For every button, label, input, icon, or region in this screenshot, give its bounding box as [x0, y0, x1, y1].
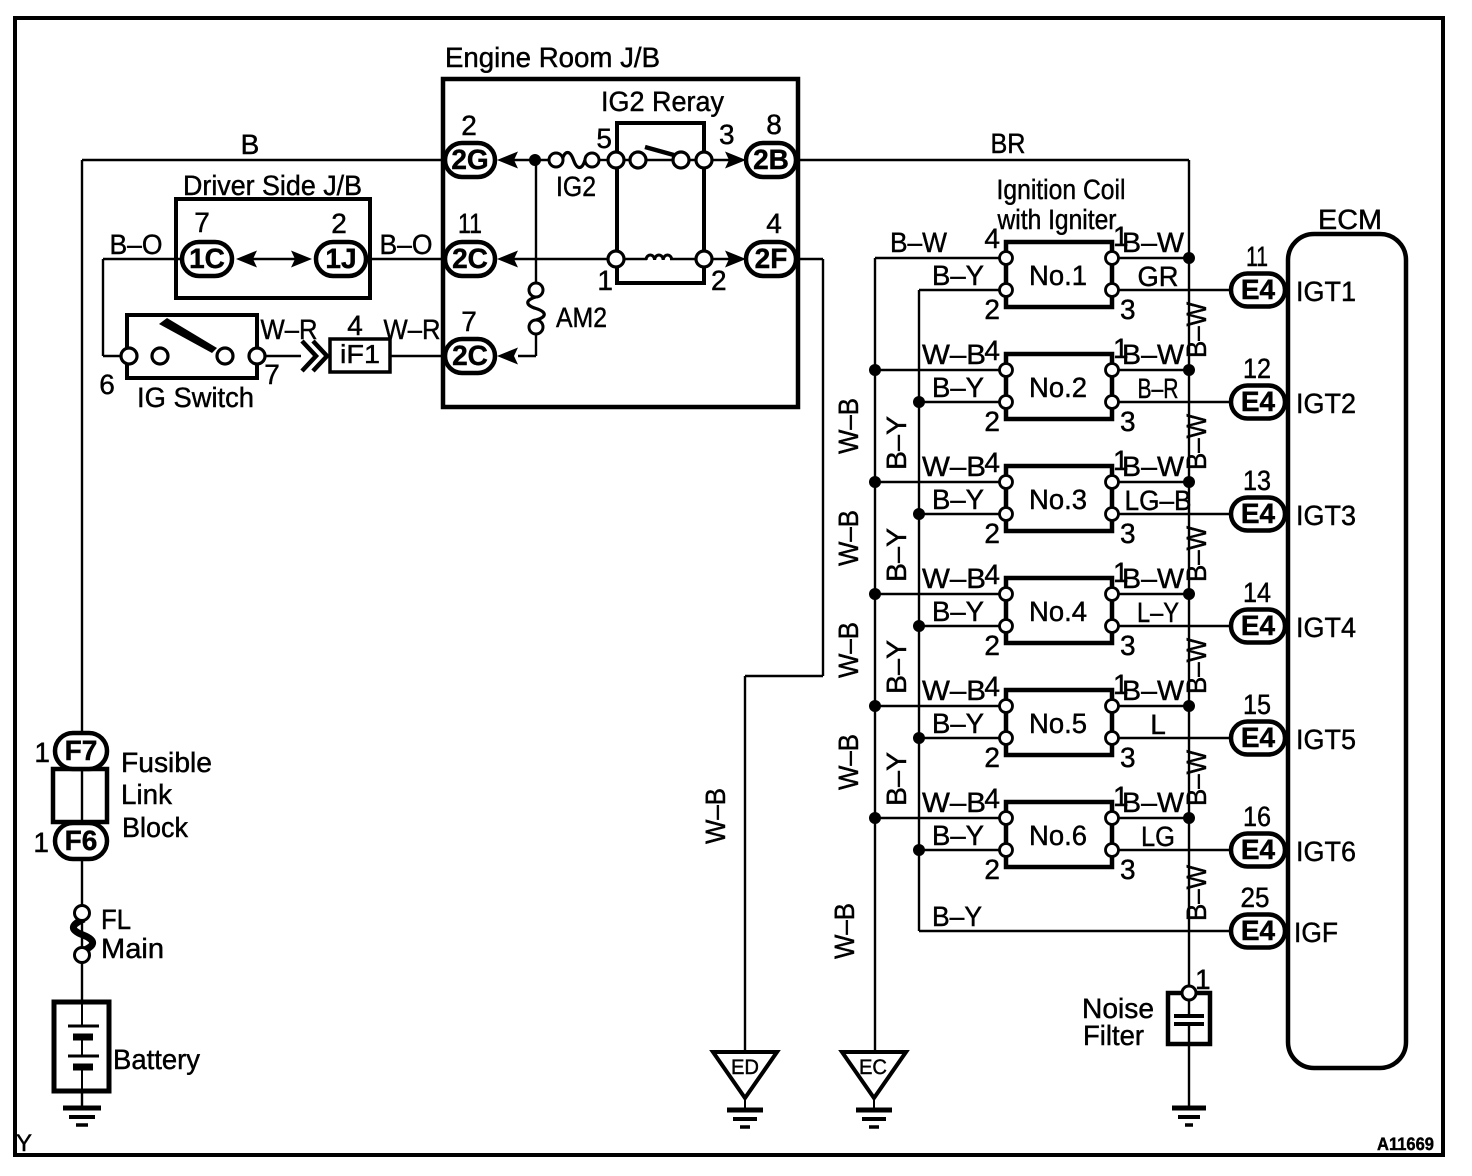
svg-text:B: B [241, 129, 260, 160]
svg-text:IG Switch: IG Switch [137, 382, 254, 413]
svg-text:2C: 2C [452, 243, 488, 274]
svg-text:W–B: W–B [829, 903, 860, 959]
svg-text:2C: 2C [452, 340, 488, 371]
svg-text:2: 2 [984, 854, 1000, 885]
svg-text:5: 5 [596, 123, 612, 154]
svg-text:W–R: W–R [384, 314, 441, 345]
svg-text:W–B: W–B [833, 398, 864, 454]
svg-text:B–Y: B–Y [932, 708, 984, 739]
svg-text:3: 3 [1120, 742, 1136, 773]
svg-text:Block: Block [122, 812, 189, 843]
svg-text:2: 2 [711, 265, 727, 296]
svg-text:F6: F6 [65, 825, 98, 856]
svg-text:4: 4 [984, 559, 1000, 590]
svg-text:B–W: B–W [1181, 749, 1212, 806]
svg-text:2B: 2B [753, 144, 789, 175]
svg-text:Main: Main [101, 933, 164, 964]
svg-text:B–O: B–O [380, 229, 433, 260]
svg-text:1J: 1J [325, 243, 356, 274]
svg-text:16: 16 [1243, 801, 1271, 832]
svg-text:Link: Link [121, 779, 173, 810]
svg-text:W–B: W–B [922, 787, 986, 818]
svg-text:B–Y: B–Y [932, 260, 984, 291]
svg-text:1: 1 [1195, 964, 1211, 995]
svg-text:2G: 2G [451, 144, 488, 175]
svg-text:IGT2: IGT2 [1296, 388, 1356, 419]
svg-text:14: 14 [1243, 577, 1271, 608]
svg-text:IG2: IG2 [556, 171, 596, 202]
svg-text:B–R: B–R [1138, 373, 1179, 404]
svg-text:E4: E4 [1241, 834, 1276, 865]
svg-text:IGT5: IGT5 [1296, 724, 1356, 755]
svg-text:B–W: B–W [1181, 413, 1212, 470]
svg-text:No.4: No.4 [1029, 596, 1087, 627]
svg-text:B–W: B–W [890, 227, 948, 258]
svg-text:4: 4 [766, 208, 782, 239]
svg-text:B–Y: B–Y [932, 372, 984, 403]
svg-text:4: 4 [984, 447, 1000, 478]
svg-text:E4: E4 [1241, 610, 1276, 641]
svg-text:W–B: W–B [833, 734, 864, 790]
svg-text:7: 7 [461, 306, 477, 337]
svg-text:B–Y: B–Y [881, 416, 912, 470]
svg-text:W–B: W–B [922, 563, 986, 594]
svg-text:E4: E4 [1241, 386, 1276, 417]
svg-text:1C: 1C [189, 243, 225, 274]
svg-text:No.1: No.1 [1029, 260, 1087, 291]
svg-text:B–Y: B–Y [932, 820, 984, 851]
svg-text:B–W: B–W [1181, 301, 1212, 358]
svg-text:B–W: B–W [1181, 525, 1212, 582]
svg-text:13: 13 [1243, 465, 1271, 496]
svg-text:BR: BR [991, 128, 1026, 159]
svg-text:W–B: W–B [922, 451, 986, 482]
svg-text:1: 1 [33, 827, 49, 858]
svg-text:2: 2 [984, 518, 1000, 549]
svg-text:FL: FL [101, 904, 131, 935]
svg-text:B–W: B–W [1122, 675, 1185, 706]
svg-text:E4: E4 [1241, 915, 1276, 946]
svg-text:W–B: W–B [833, 510, 864, 566]
svg-text:B–W: B–W [1122, 563, 1185, 594]
svg-text:W–B: W–B [700, 788, 731, 844]
svg-text:W–B: W–B [922, 675, 986, 706]
svg-text:W–B: W–B [833, 622, 864, 678]
svg-text:4: 4 [984, 335, 1000, 366]
svg-text:ECM: ECM [1318, 204, 1382, 235]
svg-text:1: 1 [597, 265, 613, 296]
svg-text:B–W: B–W [1122, 787, 1185, 818]
svg-text:AM2: AM2 [556, 302, 607, 333]
svg-text:GR: GR [1138, 261, 1179, 292]
svg-text:Y: Y [16, 1130, 32, 1157]
svg-text:Battery: Battery [113, 1044, 200, 1075]
svg-text:B–W: B–W [1122, 339, 1185, 370]
svg-text:No.3: No.3 [1029, 484, 1087, 515]
svg-text:2: 2 [984, 630, 1000, 661]
svg-text:B–W: B–W [1181, 637, 1212, 694]
svg-text:B–Y: B–Y [881, 640, 912, 694]
svg-text:4: 4 [984, 223, 1000, 254]
svg-text:B–O: B–O [110, 229, 163, 260]
svg-text:1: 1 [34, 737, 50, 768]
svg-text:B–W: B–W [1122, 451, 1185, 482]
svg-text:11: 11 [1246, 241, 1268, 272]
svg-text:7: 7 [264, 359, 280, 390]
svg-text:3: 3 [1120, 518, 1136, 549]
svg-text:B–W: B–W [1181, 864, 1212, 921]
svg-text:2: 2 [461, 110, 477, 141]
svg-text:3: 3 [719, 119, 735, 150]
svg-text:No.6: No.6 [1029, 820, 1087, 851]
svg-text:B–Y: B–Y [932, 484, 984, 515]
svg-text:IGT1: IGT1 [1296, 276, 1356, 307]
svg-text:LG–B: LG–B [1125, 485, 1192, 516]
svg-text:B–W: B–W [1122, 227, 1185, 258]
svg-text:IGF: IGF [1294, 917, 1338, 948]
svg-text:No.2: No.2 [1029, 372, 1087, 403]
svg-text:11: 11 [458, 208, 482, 239]
svg-text:W–R: W–R [261, 314, 318, 345]
svg-text:IGT3: IGT3 [1296, 500, 1356, 531]
svg-text:3: 3 [1120, 854, 1136, 885]
svg-text:2: 2 [984, 406, 1000, 437]
svg-text:EC: EC [859, 1056, 887, 1079]
svg-text:A11669: A11669 [1377, 1134, 1434, 1154]
svg-text:ED: ED [731, 1056, 759, 1079]
svg-text:E4: E4 [1241, 274, 1276, 305]
svg-text:Filter: Filter [1083, 1020, 1144, 1051]
svg-text:E4: E4 [1241, 722, 1276, 753]
svg-text:3: 3 [1120, 294, 1136, 325]
svg-text:2: 2 [331, 208, 347, 239]
svg-text:Driver Side J/B: Driver Side J/B [183, 170, 362, 201]
svg-text:W–B: W–B [922, 339, 986, 370]
svg-text:25: 25 [1241, 882, 1270, 913]
svg-text:4: 4 [347, 310, 363, 341]
svg-text:B–Y: B–Y [932, 901, 982, 932]
svg-text:B–Y: B–Y [881, 752, 912, 806]
svg-text:IG2 Reray: IG2 Reray [601, 86, 724, 117]
svg-text:IGT6: IGT6 [1296, 836, 1356, 867]
svg-text:4: 4 [984, 671, 1000, 702]
svg-text:E4: E4 [1241, 498, 1276, 529]
svg-text:2: 2 [984, 742, 1000, 773]
svg-text:iF1: iF1 [340, 339, 380, 369]
svg-text:with Igniter: with Igniter [997, 204, 1117, 235]
svg-text:LG: LG [1141, 821, 1175, 852]
svg-text:8: 8 [766, 109, 782, 140]
svg-text:4: 4 [984, 783, 1000, 814]
svg-text:12: 12 [1243, 353, 1271, 384]
svg-text:IGT4: IGT4 [1296, 612, 1356, 643]
svg-text:6: 6 [99, 369, 115, 400]
svg-text:2F: 2F [755, 243, 788, 274]
svg-text:B–Y: B–Y [932, 596, 984, 627]
svg-text:L: L [1150, 709, 1166, 740]
svg-text:3: 3 [1120, 630, 1136, 661]
svg-text:L–Y: L–Y [1137, 597, 1179, 628]
svg-text:2: 2 [984, 294, 1000, 325]
svg-text:Fusible: Fusible [121, 747, 212, 778]
svg-text:Engine Room J/B: Engine Room J/B [445, 42, 660, 73]
svg-text:3: 3 [1120, 406, 1136, 437]
svg-text:B–Y: B–Y [881, 528, 912, 582]
svg-text:7: 7 [194, 207, 210, 238]
svg-text:15: 15 [1243, 689, 1271, 720]
svg-text:F7: F7 [65, 735, 98, 766]
svg-text:No.5: No.5 [1029, 708, 1087, 739]
svg-text:Ignition Coil: Ignition Coil [997, 174, 1126, 205]
